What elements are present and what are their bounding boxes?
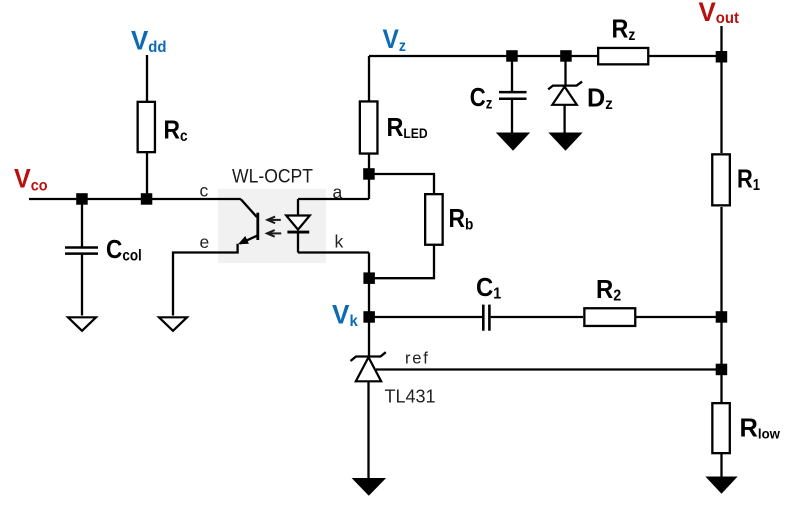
capacitor Ccol [65, 246, 98, 249]
wire k [298, 251, 369, 253]
wire a [298, 198, 369, 200]
wire Rc to Vco wire [146, 153, 148, 199]
resistor RLED [360, 101, 378, 153]
wire to Cz [511, 56, 513, 91]
node ref/Rlow junction [716, 364, 728, 376]
resistor Rlow [712, 403, 729, 453]
wire top rail right [649, 55, 722, 57]
ground (filled) for Rlow [707, 477, 737, 493]
wire TL431 to ground [367, 381, 369, 478]
svg-text:k: k [335, 231, 344, 251]
svg-text:ref: ref [405, 349, 430, 367]
wire k down to TL431 [368, 253, 370, 357]
wire Vout down [720, 26, 722, 153]
light arrow 2 [267, 230, 281, 237]
resistor Rb [425, 194, 443, 245]
phototransistor base bar [256, 213, 259, 240]
wire Ccol to ground [81, 254, 83, 316]
TL431 cathode bar [351, 352, 386, 361]
TL431 triangle [356, 357, 381, 381]
wire to Rlow [720, 370, 722, 404]
wire Dz to ground [563, 105, 565, 133]
wire Rb bottom to node [369, 245, 434, 278]
wire top rail left [369, 55, 598, 57]
wire Vz down to RLED [368, 56, 370, 101]
wire Cz to ground [511, 99, 513, 133]
wire Rlow to ground [720, 454, 722, 478]
capacitor C1 [482, 305, 485, 331]
wire C1 to R2 [491, 316, 583, 318]
capacitor Cz [499, 91, 527, 94]
wire Vco horizontal [29, 198, 241, 200]
wire to Ccol [81, 199, 83, 247]
wire to Dz [564, 56, 566, 86]
resistor R2 [584, 308, 635, 326]
ground (filled) for TL431 [353, 479, 385, 496]
resistor R1 [712, 154, 730, 205]
ground (filled) for Cz [497, 133, 529, 150]
wire node to Rb [369, 174, 434, 193]
zener Dz triangle [552, 87, 577, 105]
light arrow 1 [267, 217, 281, 224]
wire emitter to ground [173, 244, 238, 316]
wire R2 to R1 branch [636, 316, 722, 318]
opto LED cathode bar [287, 231, 309, 234]
node k/Rb junction [363, 272, 375, 284]
ground (open) for emitter [159, 317, 187, 331]
node Dz junction [560, 50, 572, 62]
zener Dz cathode bar [548, 82, 582, 90]
ground (filled) for Dz [550, 133, 582, 150]
opto LED anode lead [297, 199, 299, 215]
resistor Rc [138, 102, 155, 152]
phototransistor emitter lead [240, 236, 257, 244]
svg-text:e: e [200, 232, 210, 252]
node Vout [716, 51, 728, 63]
optocoupler U1 background [218, 189, 326, 263]
svg-text:TL431: TL431 [385, 387, 436, 407]
svg-text:WL-OCPT: WL-OCPT [232, 165, 313, 187]
wire Vk to C1 [369, 316, 482, 318]
opto LED triangle [286, 216, 310, 230]
ground (open) for Ccol [68, 317, 96, 331]
wire RLED to a-wire [368, 154, 370, 199]
node Vk [363, 311, 375, 323]
wire R1 down [720, 207, 722, 370]
node R2/R1 junction [716, 311, 728, 323]
wire ref [376, 368, 722, 370]
phototransistor collector lead [241, 199, 257, 217]
opto LED cathode lead [297, 232, 299, 252]
node at Rc junction [141, 193, 153, 205]
node Cz junction [506, 50, 518, 62]
resistor Rz [598, 48, 648, 64]
node at Ccol junction [76, 193, 88, 205]
phototransistor emitter arrowhead [238, 236, 249, 244]
svg-text:c: c [200, 180, 209, 200]
wire Vdd to Rc [146, 55, 148, 101]
node below RLED [363, 168, 375, 180]
